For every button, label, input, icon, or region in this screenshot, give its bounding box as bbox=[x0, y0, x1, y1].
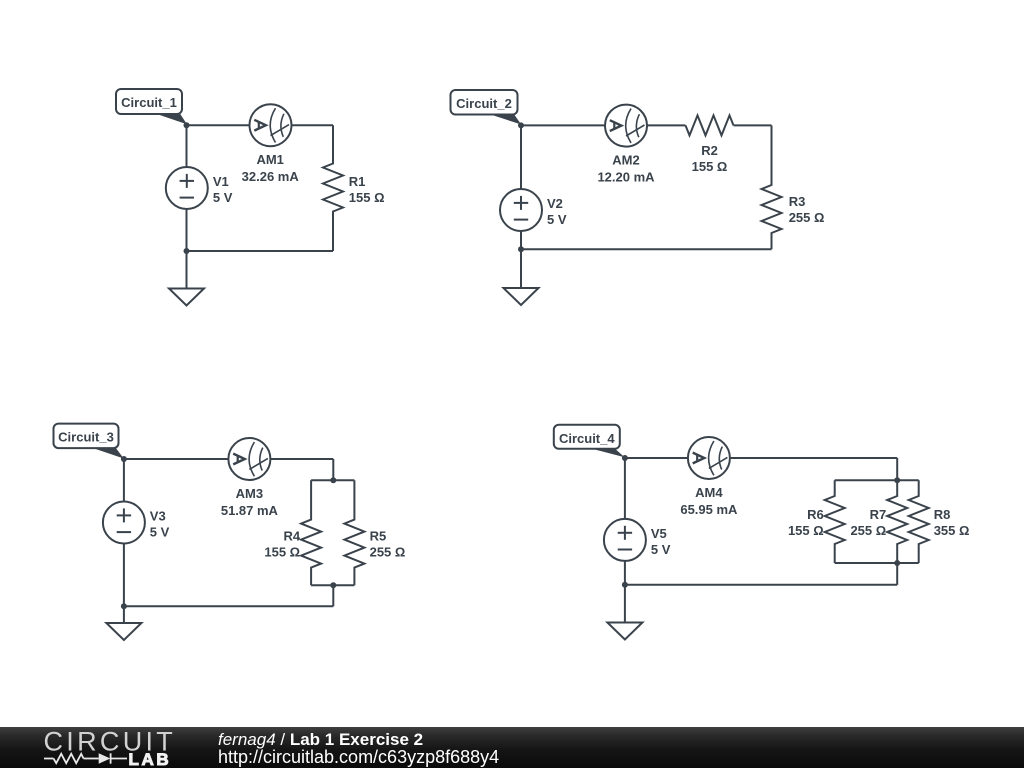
svg-text:255 Ω: 255 Ω bbox=[370, 544, 406, 559]
svg-text:65.95 mA: 65.95 mA bbox=[680, 502, 738, 517]
wire V5 bottom lead bbox=[624, 561, 626, 585]
ground circuit 4 bbox=[607, 623, 642, 640]
svg-text:AM1: AM1 bbox=[256, 152, 283, 167]
svg-text:R7: R7 bbox=[870, 507, 887, 522]
svg-text:http://circuitlab.com/c63yzp8f: http://circuitlab.com/c63yzp8f688y4 bbox=[218, 747, 499, 767]
svg-text:155 Ω: 155 Ω bbox=[349, 190, 385, 205]
CircuitLab logo wordmark bbox=[44, 727, 177, 768]
ammeter AM1 bbox=[250, 104, 292, 146]
node label Circuit_2 bbox=[451, 90, 522, 125]
node parallel bottom junction circuit 4 bbox=[894, 560, 900, 566]
node B circuit 2 bottom junction bbox=[518, 246, 524, 252]
node label Circuit_1 bbox=[116, 89, 187, 124]
ground circuit 1 bbox=[169, 289, 204, 306]
svg-text:V1: V1 bbox=[213, 174, 229, 189]
wire top rail circuit 3 bbox=[124, 458, 333, 460]
wire parallel bottom rail circuit 3 bbox=[311, 584, 354, 586]
wire top rail circuit 4 bbox=[625, 457, 897, 459]
node B circuit 1 bottom junction bbox=[184, 248, 190, 254]
wire bottom drop circuit 4 bbox=[896, 563, 898, 585]
svg-text:V3: V3 bbox=[150, 509, 166, 524]
node A circuit 3 top junction bbox=[121, 456, 127, 462]
resistor R2 bbox=[686, 115, 734, 135]
svg-text:5 V: 5 V bbox=[213, 190, 233, 205]
wire right drop circuit 4 bbox=[896, 458, 898, 480]
wire parallel bottom rail circuit 4 bbox=[835, 562, 919, 564]
node B circuit 4 bottom junction bbox=[622, 582, 628, 588]
svg-text:R3: R3 bbox=[789, 194, 806, 209]
svg-text:12.20 mA: 12.20 mA bbox=[597, 170, 655, 185]
svg-text:5 V: 5 V bbox=[547, 212, 567, 227]
wire top rail circuit 1 bbox=[187, 124, 334, 126]
svg-text:V5: V5 bbox=[651, 526, 667, 541]
wire ground lead circuit 1 bbox=[186, 251, 188, 289]
wire top rail circuit 2 left bbox=[521, 124, 686, 126]
voltage source V1 bbox=[166, 167, 208, 209]
resistor R6 bbox=[825, 480, 845, 563]
resistor R1 bbox=[323, 125, 343, 251]
svg-text:5 V: 5 V bbox=[651, 542, 671, 557]
svg-text:355 Ω: 355 Ω bbox=[934, 523, 970, 538]
svg-text:R2: R2 bbox=[701, 143, 718, 158]
ammeter AM2 bbox=[605, 105, 647, 147]
svg-text:R5: R5 bbox=[370, 528, 387, 543]
resistor R4 bbox=[301, 480, 321, 585]
footer bar bbox=[0, 727, 1024, 768]
svg-text:R1: R1 bbox=[349, 174, 366, 189]
svg-text:Circuit_3: Circuit_3 bbox=[58, 430, 114, 445]
wire bottom rail circuit 3 bbox=[124, 605, 333, 607]
wire V1 bottom lead bbox=[186, 209, 188, 251]
voltage source V2 bbox=[500, 189, 542, 231]
svg-text:AM3: AM3 bbox=[236, 486, 263, 501]
resistor R7 bbox=[887, 480, 907, 563]
svg-text:R8: R8 bbox=[934, 507, 951, 522]
wire parallel top rail circuit 3 bbox=[311, 479, 354, 481]
svg-text:51.87 mA: 51.87 mA bbox=[221, 503, 279, 518]
svg-text:Circuit_1: Circuit_1 bbox=[121, 95, 177, 110]
wire bottom rail circuit 4 bbox=[625, 584, 897, 586]
node label Circuit_4 bbox=[554, 425, 625, 457]
wire top rail circuit 2 right bbox=[734, 124, 772, 126]
node parallel top junction circuit 3 bbox=[330, 477, 336, 483]
ammeter AM3 bbox=[228, 438, 270, 480]
node label Circuit_3 bbox=[54, 424, 124, 459]
ground circuit 3 bbox=[106, 623, 141, 640]
svg-text:155 Ω: 155 Ω bbox=[692, 159, 728, 174]
node parallel bottom junction circuit 3 bbox=[330, 582, 336, 588]
resistor R5 bbox=[344, 480, 364, 585]
svg-text:5 V: 5 V bbox=[150, 525, 170, 540]
node A circuit 2 top junction bbox=[518, 122, 524, 128]
node A circuit 4 top junction bbox=[622, 455, 628, 461]
wire ground lead circuit 3 bbox=[123, 606, 125, 623]
svg-text:R4: R4 bbox=[283, 528, 300, 543]
wire bottom drop circuit 3 bbox=[332, 585, 334, 606]
node parallel top junction circuit 4 bbox=[894, 477, 900, 483]
svg-text:V2: V2 bbox=[547, 196, 563, 211]
svg-text:155 Ω: 155 Ω bbox=[788, 523, 824, 538]
wire ground lead circuit 2 bbox=[520, 249, 522, 288]
svg-text:Circuit_2: Circuit_2 bbox=[456, 96, 512, 111]
resistor R3 bbox=[762, 125, 782, 249]
svg-text:LAB: LAB bbox=[129, 750, 172, 768]
wire V1 top lead bbox=[186, 125, 188, 167]
wire right drop circuit 3 bbox=[332, 459, 334, 480]
svg-text:R6: R6 bbox=[807, 507, 824, 522]
wire ground lead circuit 4 bbox=[624, 585, 626, 623]
wire bottom rail circuit 1 bbox=[187, 250, 334, 252]
wire V2 top lead bbox=[520, 125, 522, 189]
ammeter AM4 bbox=[688, 437, 730, 479]
wire V3 top lead bbox=[123, 459, 125, 502]
resistor R8 bbox=[909, 480, 929, 563]
wire V2 bottom lead bbox=[520, 231, 522, 249]
svg-text:255 Ω: 255 Ω bbox=[850, 523, 886, 538]
svg-text:32.26 mA: 32.26 mA bbox=[242, 169, 300, 184]
wire parallel top rail circuit 4 bbox=[835, 479, 919, 481]
svg-text:AM2: AM2 bbox=[612, 153, 639, 168]
wire bottom rail circuit 2 bbox=[521, 248, 772, 250]
wire V5 top lead bbox=[624, 458, 626, 519]
wire V3 bottom lead bbox=[123, 544, 125, 607]
svg-text:155 Ω: 155 Ω bbox=[264, 544, 300, 559]
svg-text:AM4: AM4 bbox=[695, 485, 723, 500]
svg-text:255 Ω: 255 Ω bbox=[789, 210, 825, 225]
node B circuit 3 bottom junction bbox=[121, 603, 127, 609]
voltage source V5 bbox=[604, 519, 646, 561]
svg-text:Circuit_4: Circuit_4 bbox=[559, 431, 615, 446]
node A circuit 1 top junction bbox=[184, 122, 190, 128]
CircuitLab logo resistor-diode glyph bbox=[44, 753, 127, 763]
voltage source V3 bbox=[103, 502, 145, 544]
ground circuit 2 bbox=[504, 288, 539, 305]
